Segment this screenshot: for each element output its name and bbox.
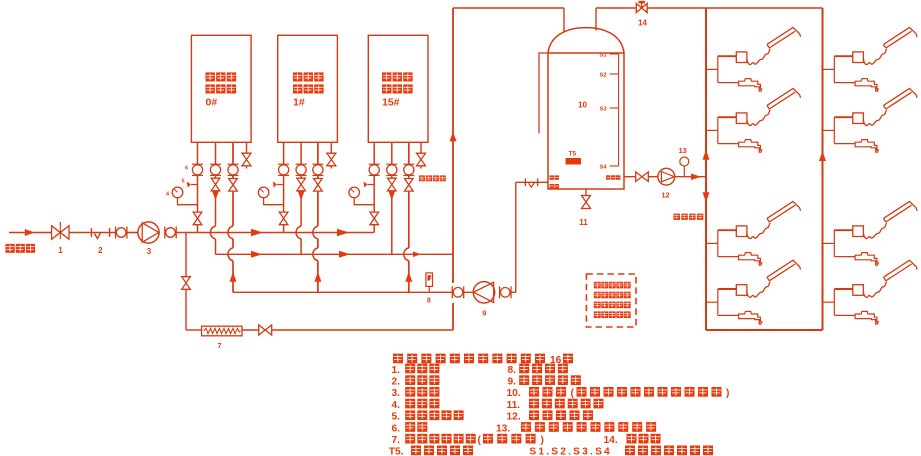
pump 12 (usage hot water pump) [658,168,675,185]
svg-text:14.: 14. [604,435,618,446]
label 至各用户 (to each user) [674,214,681,220]
svg-text:6.: 6. [392,423,401,434]
svg-text:13.: 13. [496,423,510,434]
up flow arrow on pipe C unit1 [230,272,237,282]
wire: heater loop bottom left [186,329,202,331]
pipe B unit3: hot outlet [391,142,393,178]
shower fixture left column row 1 [706,68,718,70]
shower fixture right column row 2 [823,129,835,131]
unit 2 text line1 热泵热 [293,72,302,81]
svg-text:S1.S2.S3.S4: S1.S2.S3.S4 [529,447,612,456]
valve on left drop [182,277,191,290]
wire: bottom connector between risers [706,329,823,331]
svg-text:S4: S4 [600,165,608,171]
svg-text:T5: T5 [569,150,577,157]
union before pump 3 [115,227,117,239]
wire: tank top outlet pipe [595,8,597,31]
svg-text:8.: 8. [508,365,517,376]
svg-text:8: 8 [427,298,431,305]
hop of pipe C unit2 over cold manifold [313,226,318,239]
pressure gauge 4 unit1 [172,187,183,198]
svg-text:11.: 11. [507,400,521,411]
tank level bracket [618,54,620,166]
wire: tank usage outlet [624,176,636,178]
pipe B unit2: hot outlet [300,142,302,178]
up arrow on left riser [703,150,710,160]
tank 10 body [548,53,624,189]
wire: left shower riser [705,8,707,330]
pipe C unit2: circulation inlet [317,142,319,178]
svg-text:3.: 3. [392,388,401,399]
down flow arrow on pipe B unit2 [298,191,305,200]
wire: pump 12 to riser [675,176,706,178]
svg-text:): ) [541,435,544,446]
tank drain valve 11 [585,189,587,196]
note text line 3 [594,302,601,309]
heat pump unit box 1 [191,35,251,142]
auto air vent 5 unit2 [277,184,284,186]
pipe D unit2: drain stub [330,142,332,153]
wire: circulation manifold [233,291,473,293]
wire: heater to valve [242,329,259,331]
svg-text:0#: 0# [206,97,218,109]
svg-text:12: 12 [661,191,669,200]
pump 3 (inlet water pump) [138,222,159,243]
wire: valve1 to strainer [69,232,116,234]
down flow arrow on pipe B unit3 [389,191,396,200]
union after pump 3 [164,227,166,239]
pipe A unit3: cold feed [373,142,375,212]
svg-text:13: 13 [679,146,687,155]
union on pipe C unit2 [312,163,323,165]
union after pump 9 [499,286,501,298]
note text line 2 [594,292,601,299]
flow arrow hot manifold 1 [251,251,262,258]
pipe B unit1: hot outlet [215,142,217,178]
heat pump unit box 2 [278,35,338,142]
valve at tank usage outlet [636,172,649,182]
shower fixture left column row 2 [706,129,718,131]
wire: heater loop to riser [272,329,453,331]
svg-text:5.: 5. [392,412,401,423]
pipe D unit1: drain stub [246,142,248,153]
valve on pipe C unit2 [314,179,323,192]
unit 3 text line2 水机组 [382,84,391,93]
hop of pipe C unit3 over hot manifold [404,248,409,261]
unit 1 text line2 水机组 [206,84,215,93]
union on pipe B unit2 [296,163,307,165]
up flow arrow on pipe C unit2 [314,272,321,282]
solenoid valve 14 [636,4,647,13]
flow switch 8 [426,273,433,287]
svg-text:4: 4 [166,192,170,198]
union at riser / circulation line [451,286,453,298]
wire: tank top inlet pipe [563,8,565,32]
pipe A unit1: cold feed [197,142,199,212]
flow arrow on cold manifold 1 [251,229,263,237]
wire: top hot supply line [453,7,564,9]
unit 3 text line1 热泵热 [382,72,391,81]
hop of pipe C unit1 over hot manifold [228,248,233,261]
auto air vent 5 unit1 [191,184,198,186]
note text line 1 [594,282,601,289]
svg-text:15#: 15# [382,97,400,109]
label 用水口 (usage port) [606,175,611,179]
flow arrow hot manifold 3 [413,252,421,257]
svg-text:(: ( [478,435,482,446]
pressure gauge 13 [680,157,689,166]
shower fixture left column row 3 [706,242,718,244]
wire: union to pump 3 [126,232,138,234]
drain valve on pipe D unit2 [327,153,336,166]
pipe D unit3: drain stub [420,142,422,153]
wire: tank circulation suction drop [515,182,517,292]
svg-text:9: 9 [482,309,486,318]
hop of pipe C unit2 over hot manifold [313,248,318,261]
valve on pipe A unit3 [370,212,379,225]
legend header 热泵热水机组最多可并联16台 [393,354,403,364]
valve 1 stop valve [52,226,69,240]
svg-text:2.: 2. [392,377,401,388]
wire: right shower riser [822,8,824,330]
wire: main cold manifold [175,232,374,234]
valve on pipe B unit3 [388,178,397,191]
svg-text:6: 6 [185,166,188,172]
heat pump unit box 3 [368,35,428,142]
svg-text:S3: S3 [600,107,608,113]
down arrow on left riser [703,192,710,202]
valve on pipe A unit1 [193,212,202,225]
pressure gauge 4 unit2 [258,187,269,198]
svg-text:1: 1 [58,246,63,255]
svg-text:12.: 12. [507,412,521,423]
shower fixture right column row 3 [823,242,835,244]
unit 2 text line2 水机组 [293,84,302,93]
tank overflow pipe [539,53,548,133]
svg-text:): ) [726,388,729,399]
svg-text:5: 5 [181,179,184,185]
svg-text:10.: 10. [507,388,521,399]
wire: hot collection manifold [216,253,454,255]
svg-text:9.: 9. [508,377,517,388]
pump 9 (circulation hot water pump) [473,282,494,303]
strainer on tank circulation outlet [516,181,548,183]
unit 1 text line1 热泵热 [206,72,215,81]
label 循环水口 (circulation port) [550,175,555,179]
valve on pipe B unit2 [297,178,306,191]
union on pipe B unit3 [386,163,397,165]
flow arrow to users [691,173,701,180]
union on pipe A unit2 [278,163,289,165]
valve on pipe C unit1 [229,179,238,192]
up flow arrow on pipe C unit3 [405,272,412,282]
auxiliary electric heater 7 [202,326,242,336]
svg-text:1.: 1. [392,365,401,376]
hop of pipe C unit1 over cold manifold [228,226,233,239]
up arrow on right riser [819,151,826,161]
union on pipe A unit1 [192,163,203,165]
svg-text:1#: 1# [293,97,305,109]
shower fixture right column row 4 [823,301,835,303]
wire: left drop to heater loop [185,233,187,278]
valve on pipe C unit3 [405,179,414,192]
union on pipe A unit3 [369,163,380,165]
svg-text:11: 11 [579,218,588,227]
svg-text:T5.: T5. [389,447,404,456]
note text line 4 [594,311,601,318]
drain valve on pipe D unit3 [417,153,426,166]
flow arrow hot manifold 2 [339,251,350,258]
hop of pipe B unit1 over cold manifold [210,226,215,239]
shower fixture left column row 4 [706,301,718,303]
svg-text:7.: 7. [392,435,401,446]
union on pipe C unit1 [228,163,239,165]
svg-text:S2: S2 [600,73,607,79]
svg-text:10: 10 [578,101,587,110]
union on pipe B unit1 [210,163,221,165]
label 接排水沟 (to drain ditch) [419,175,425,181]
label 自来水 (tap water) [6,244,15,253]
pipe C unit3: circulation inlet [408,142,410,178]
dashed note box [586,274,636,327]
wire: pump 9 to tank suction corner [511,291,516,293]
drain valve on pipe D unit1 [242,153,251,166]
wire: tap water inlet pipe [9,232,52,234]
flow arrow into system [25,229,35,236]
wire: central riser [452,8,454,283]
down flow arrow on pipe B unit1 [212,191,219,200]
valve on pipe B unit1 [211,178,220,191]
strainer 2 (Y-filter) [90,228,92,237]
wire: valve to pump 12 [648,176,658,178]
tank dome [548,28,624,53]
flow arrow on cold manifold 2 [337,229,349,237]
valve on pipe A unit2 [279,212,288,225]
union on pipe C unit3 [403,163,414,165]
svg-text:2: 2 [98,246,103,255]
svg-text:(: ( [571,388,575,399]
svg-text:14: 14 [638,19,647,28]
valve on heater loop [259,325,272,335]
pressure gauge 4 unit3 [349,187,360,198]
auto air vent 5 unit3 [368,184,375,186]
svg-text:3: 3 [147,247,152,256]
pipe C unit1: circulation inlet [232,142,234,178]
pipe A unit2: cold feed [283,142,285,212]
shower fixture right column row 1 [823,68,835,70]
svg-text:4.: 4. [392,400,401,411]
svg-text:S1: S1 [600,53,608,59]
up flow arrow on riser [450,132,457,142]
hop of pipe B unit2 over cold manifold [296,226,301,239]
svg-text:7: 7 [217,341,221,350]
